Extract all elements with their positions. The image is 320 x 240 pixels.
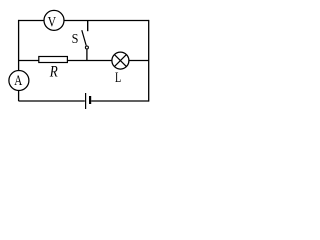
svg-text:A: A (14, 73, 22, 89)
svg-text:V: V (48, 14, 57, 30)
svg-text:R: R (49, 64, 58, 81)
svg-text:S: S (72, 32, 79, 47)
svg-text:L: L (115, 70, 121, 86)
